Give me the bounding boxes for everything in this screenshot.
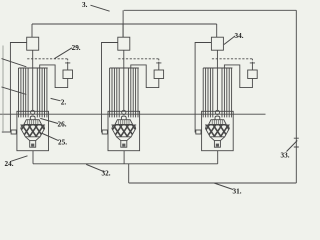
svg-text:29.: 29.	[72, 44, 81, 52]
valve: valve 33 on downcomer	[294, 138, 299, 147]
wire: feed riser unit 1	[31, 24, 33, 37]
deflector cone unit 2	[115, 120, 133, 125]
label 3 leader	[91, 5, 110, 11]
label 24 leader	[11, 156, 27, 161]
wire: bottom collection line (32)	[33, 163, 218, 165]
side device box unit 2	[154, 70, 164, 79]
wire: drop to discharge line	[128, 164, 130, 183]
motor box unit 1	[27, 37, 39, 50]
outlet stub unit 3	[214, 141, 220, 148]
screw housing box unit 3	[202, 111, 234, 150]
wire: return pipe unit 2	[131, 65, 159, 88]
side device box unit 1	[63, 70, 73, 79]
svg-text:31.: 31.	[233, 188, 242, 196]
wire: feed manifold	[32, 23, 217, 25]
vessel walls and filter plates unit 1	[19, 68, 47, 117]
label 26 leader	[40, 118, 58, 123]
valve: inlet valve unit 2	[102, 130, 107, 134]
screw housing box unit 2	[108, 111, 140, 150]
svg-text:33.: 33.	[281, 152, 290, 160]
motor box unit 2	[118, 37, 130, 50]
svg-text:34.: 34.	[235, 32, 244, 40]
svg-text:25.: 25.	[58, 138, 67, 146]
dashed control line unit 3	[212, 58, 253, 60]
wire: feed riser unit 2	[122, 24, 124, 37]
leader line to vessel top (cropped label)	[2, 59, 27, 67]
vessel lid unit 3	[203, 67, 232, 69]
label 33 leader	[287, 141, 298, 152]
svg-text:2.: 2.	[61, 98, 67, 106]
deflector cap unit 1	[30, 116, 35, 120]
filter unit 1 assembly	[2, 24, 73, 164]
vessel lid unit 2	[110, 67, 139, 69]
wire: side feed pipe unit 1	[10, 43, 26, 133]
filter unit 2 assembly	[102, 24, 164, 164]
wire: side feed pipe unit 2	[102, 43, 118, 133]
sensor tee unit 2	[156, 63, 161, 70]
agitator tip circle unit 3	[215, 110, 219, 114]
label 34 leader	[224, 36, 235, 45]
wire: right downcomer	[295, 10, 297, 183]
svg-text:26.: 26.	[58, 120, 67, 128]
dashed control line unit 1	[27, 58, 67, 60]
wire: return pipe unit 3	[224, 65, 252, 88]
wire: top return header (3)	[124, 9, 296, 11]
vessel walls and filter plates unit 3	[203, 68, 231, 117]
valve: inlet valve unit 1	[11, 130, 16, 134]
screw housing box unit 1	[17, 111, 49, 150]
wire: drain pipe unit 3	[217, 151, 219, 164]
deflector cone unit 3	[209, 120, 227, 125]
outlet stub unit 2	[121, 141, 127, 148]
deflector cone unit 1	[24, 120, 42, 125]
motor box unit 3	[211, 37, 223, 50]
shaft: agitator shaft unit 1	[32, 50, 34, 110]
svg-text:32.: 32.	[102, 170, 111, 178]
deflector cap unit 3	[215, 116, 220, 120]
shaft: agitator shaft unit 3	[216, 50, 218, 110]
sensor tee unit 3	[250, 63, 255, 70]
label 31 leader	[214, 183, 233, 190]
label 29 leader	[55, 48, 73, 59]
wire: unit2 riser to top header	[122, 10, 124, 38]
hopper top edge unit 3	[205, 124, 230, 126]
wire: horizontal support line across units	[0, 113, 266, 115]
label 2 leader	[51, 98, 61, 100]
faint feed line at left margin	[2, 46, 4, 134]
wire: drain pipe unit 2	[123, 151, 125, 164]
agitator tip circle unit 1	[31, 110, 35, 114]
deflector cap unit 2	[121, 116, 126, 120]
wire: side feed pipe unit 3	[195, 43, 211, 133]
label 32 leader	[86, 164, 104, 171]
wire: discharge line (31)	[129, 182, 297, 184]
leader line to filter plate (cropped label)	[2, 87, 27, 95]
hopper top edge unit 1	[20, 124, 45, 126]
valve: inlet valve unit 3	[196, 130, 201, 134]
filter unit 3 assembly	[195, 24, 257, 164]
vessel walls and filter plates unit 2	[110, 68, 138, 117]
wire: drain pipe unit 1	[32, 151, 34, 164]
shaft: agitator shaft unit 2	[123, 50, 125, 110]
wire: inlet stub to page edge	[2, 131, 11, 133]
vessel lid unit 1	[19, 67, 48, 69]
svg-text:24.: 24.	[5, 160, 14, 168]
outlet stub unit 1	[30, 141, 36, 148]
outlet funnel unit 2	[117, 137, 132, 141]
wire: return pipe unit 1	[40, 65, 68, 88]
agitator tip circle unit 2	[122, 110, 126, 114]
outlet funnel unit 1	[25, 137, 40, 141]
outlet funnel unit 3	[210, 137, 225, 141]
dashed control line unit 2	[118, 58, 159, 60]
side device box unit 3	[248, 70, 258, 79]
svg-text:3.: 3.	[82, 1, 88, 9]
label 25 leader	[41, 133, 58, 141]
hopper top edge unit 2	[111, 124, 136, 126]
sensor tee unit 1	[65, 63, 70, 70]
wire: feed riser unit 3	[216, 24, 218, 37]
